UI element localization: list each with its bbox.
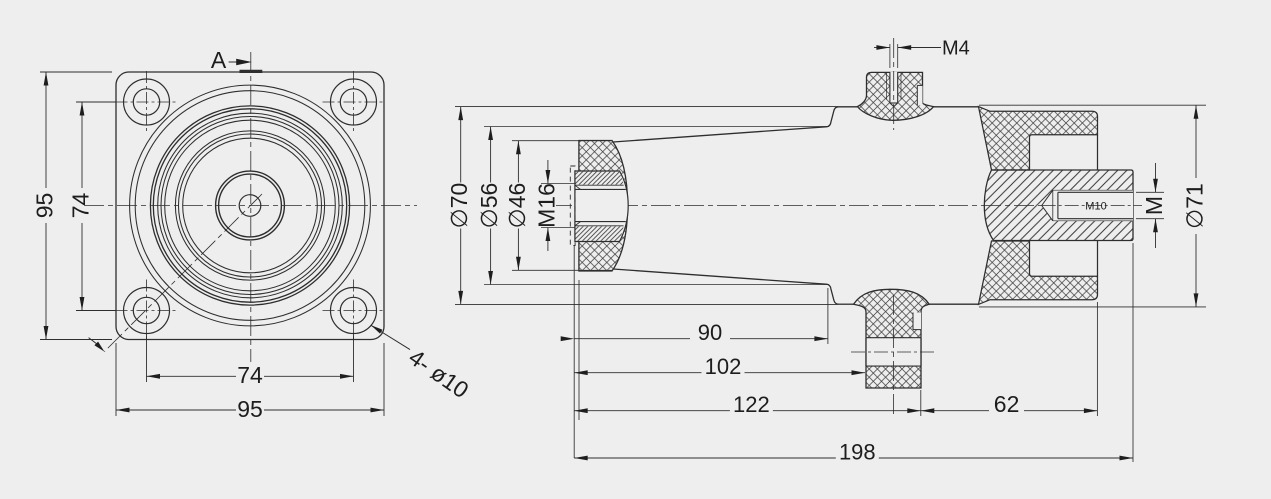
extension line cap right (62): [1096, 302, 1098, 416]
svg-text:90: 90: [698, 320, 722, 345]
M10 electrode insert (sectioned metal): [984, 170, 1137, 241]
right porcelain cap (sectioned): [979, 107, 1098, 305]
view centerline vertical: [250, 52, 252, 362]
phantom flange at insert face: [570, 166, 575, 246]
step to cylinder (top): [828, 107, 839, 127]
diagonal centerline to corner hole: [104, 194, 262, 352]
svg-text:M4: M4: [942, 38, 970, 60]
svg-text:62: 62: [994, 391, 1020, 417]
step to cylinder (bottom): [828, 284, 839, 304]
dimension M4: [874, 38, 970, 69]
M4 boss centerline: [893, 38, 895, 130]
dimension dia46: [504, 141, 612, 271]
dimension 198: [574, 440, 1133, 465]
dimension 122: [574, 392, 921, 417]
dimension 90: [561, 320, 828, 345]
dimension 62: [921, 391, 1098, 417]
svg-text:∅70: ∅70: [446, 183, 472, 229]
bottom boss centerline vertical: [893, 295, 895, 417]
dimension dia70: [446, 107, 838, 305]
view centerline horizontal: [84, 205, 417, 207]
dimension M16: [533, 160, 575, 251]
dimension dia56: [476, 127, 829, 285]
svg-text:102: 102: [705, 354, 742, 379]
bolt hole 1 (4-dia10): [116, 71, 178, 133]
cone bottom edge: [613, 269, 828, 284]
dimension 95 (left height): [32, 72, 113, 340]
dimension 74 (bottom hole spacing): [147, 334, 354, 388]
section arrow (bottom-left): [89, 338, 105, 352]
M16 threaded insert (sectioned metal): [575, 171, 628, 242]
svg-text:95: 95: [237, 396, 263, 422]
svg-text:74: 74: [68, 193, 94, 219]
cylinder bottom surface: [839, 303, 979, 305]
svg-text:A: A: [211, 47, 227, 73]
svg-text:M10: M10: [1085, 201, 1106, 213]
bottom boss hole centerline horizontal: [851, 351, 936, 353]
svg-text:∅46: ∅46: [504, 183, 530, 229]
extension line boss right (122/62): [920, 390, 922, 416]
main centerline (side section): [552, 205, 1145, 207]
insulator shed rings (front view concentric circles): [130, 85, 371, 326]
dimension 102: [574, 354, 865, 379]
dimension 95 (bottom width): [116, 343, 384, 422]
svg-text:M: M: [1141, 196, 1167, 215]
svg-text:∅71: ∅71: [1182, 183, 1208, 229]
svg-text:74: 74: [237, 362, 263, 388]
svg-text:95: 95: [32, 193, 58, 219]
dimension 74 (left hole spacing vertical): [68, 102, 117, 311]
center boss circles: [216, 171, 285, 240]
cone top edge: [613, 127, 828, 142]
svg-text:∅56: ∅56: [476, 183, 502, 229]
dimension dia71: [979, 105, 1208, 307]
svg-text:198: 198: [839, 440, 876, 465]
dimension M (thread): [1136, 163, 1167, 248]
svg-text:M16: M16: [533, 183, 559, 228]
datum extension lines (left): [574, 246, 579, 458]
M4 terminal boss (top, sectioned): [857, 72, 933, 121]
flange plate outline (front view): [116, 72, 384, 340]
cylinder top surface: [839, 106, 979, 108]
bolt hole 3 (4-dia10): [116, 280, 178, 342]
left dome (hatched porcelain around M16 insert): [579, 141, 628, 272]
bolt hole 4 (4-dia10): [323, 280, 385, 342]
leader and label 4-dia10: [371, 325, 474, 403]
svg-text:122: 122: [733, 392, 770, 417]
center hole: [239, 195, 261, 217]
bolt hole 2 (4-dia10): [323, 71, 385, 133]
bottom mounting boss (sectioned): [854, 289, 930, 388]
extension line at step (90): [827, 288, 829, 344]
extension line electrode right (198): [1132, 243, 1134, 462]
section arrow A (top): [211, 47, 262, 73]
